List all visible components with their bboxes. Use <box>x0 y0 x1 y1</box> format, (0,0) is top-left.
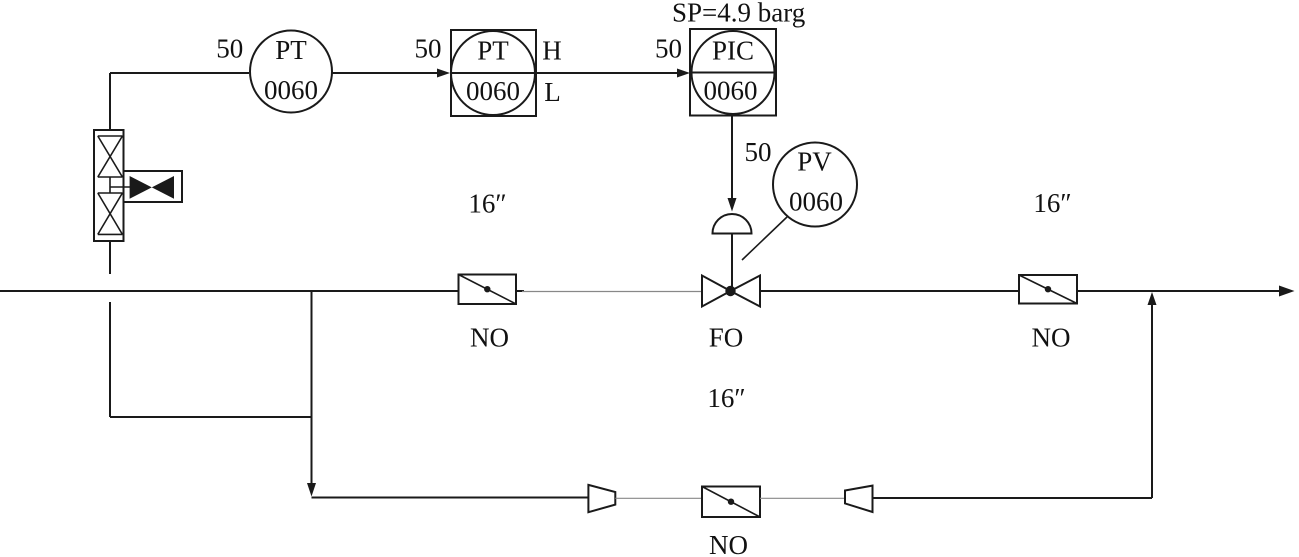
svg-text:H: H <box>542 36 562 66</box>
svg-text:NO: NO <box>470 323 509 353</box>
svg-text:FO: FO <box>709 323 744 353</box>
svg-text:0060: 0060 <box>704 76 758 106</box>
svg-text:PV: PV <box>797 147 832 177</box>
svg-text:PT: PT <box>275 35 307 65</box>
svg-text:16″: 16″ <box>707 383 745 413</box>
svg-text:50: 50 <box>655 34 682 64</box>
svg-text:L: L <box>544 77 561 107</box>
svg-text:16″: 16″ <box>468 188 506 218</box>
svg-text:SP=4.9 barg: SP=4.9 barg <box>672 0 805 28</box>
svg-text:PT: PT <box>477 36 509 66</box>
svg-text:0060: 0060 <box>789 187 843 217</box>
svg-text:NO: NO <box>1032 323 1071 353</box>
svg-text:16″: 16″ <box>1033 188 1071 218</box>
svg-text:0060: 0060 <box>466 76 520 106</box>
svg-text:50: 50 <box>745 137 772 167</box>
svg-text:PIC: PIC <box>712 36 754 66</box>
svg-text:NO: NO <box>709 530 748 557</box>
svg-text:50: 50 <box>216 34 243 64</box>
svg-text:50: 50 <box>415 34 442 64</box>
svg-text:0060: 0060 <box>264 75 318 105</box>
